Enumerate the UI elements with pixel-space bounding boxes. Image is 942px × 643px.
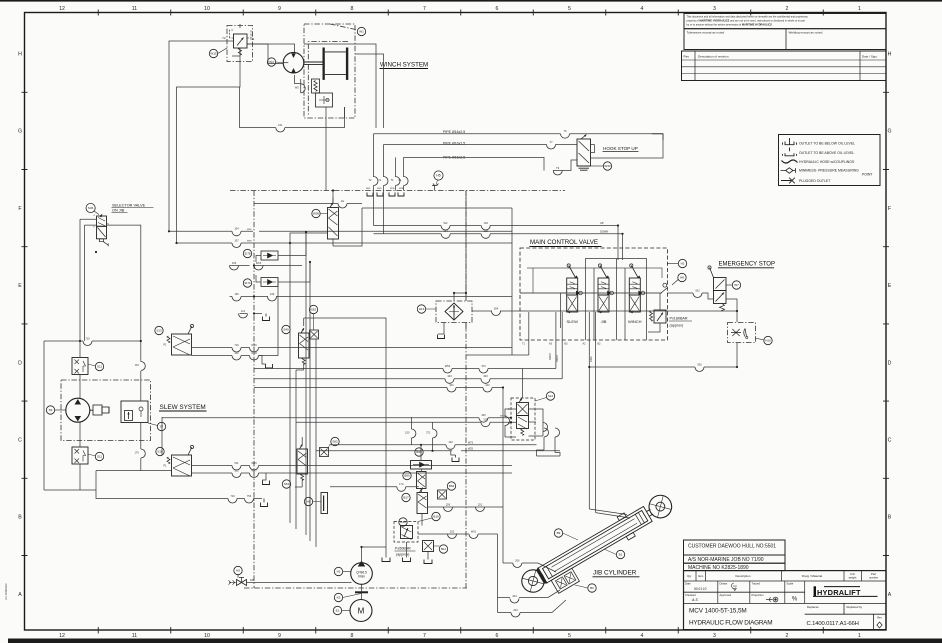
svg-text:17A: 17A: [399, 482, 404, 486]
B60 bubble: [403, 471, 411, 479]
winch brake spring valve: [312, 79, 320, 93]
hook stop wires: [591, 134, 664, 153]
svg-text:103: 103: [484, 221, 489, 225]
svg-text:350AT: 350AT: [556, 355, 559, 362]
MCV bubble H2: [678, 259, 686, 267]
svg-text:W1: W1: [359, 30, 364, 34]
svg-text:6: 6: [496, 633, 499, 639]
svg-text:B60: B60: [404, 474, 410, 478]
svg-text:E: E: [18, 283, 22, 289]
svg-text:W51: W51: [471, 529, 477, 533]
svg-text:ON JIB: ON JIB: [112, 209, 125, 213]
svg-text:Scale: Scale: [787, 582, 794, 586]
MCV feed verticals: [618, 226, 623, 261]
svg-text:Drwg / Material: Drwg / Material: [802, 574, 823, 578]
svg-text:%: %: [792, 597, 798, 603]
svg-text:W48: W48: [251, 351, 257, 355]
valve S40 bubble: [282, 325, 290, 333]
page bottom edge: [8, 639, 942, 643]
svg-text:Approved: Approved: [720, 593, 732, 597]
svg-text:1H: 1H: [341, 199, 344, 203]
svg-text:HYDRAULIC HOSE w/COUPLINGS: HYDRAULIC HOSE w/COUPLINGS: [799, 160, 855, 164]
jib cylinder group: [517, 490, 677, 598]
svg-text:by or to anyone without the wr: by or to anyone without the written perm…: [687, 23, 774, 27]
svg-text:101: 101: [278, 123, 283, 127]
S10 wires right: [192, 465, 513, 467]
svg-text:This document and all informat: This document and all information and da…: [687, 15, 809, 19]
right side vertical from hook area: [817, 190, 819, 192]
svg-text:G: G: [18, 129, 22, 135]
svg-text:W58: W58: [247, 241, 252, 243]
title block date drawn traced scale rows: [684, 592, 887, 603]
MCV inner connections: [527, 268, 662, 278]
H10 outlet wire: [589, 343, 737, 368]
winch to deck vertical main: [304, 44, 376, 128]
winch system label W1: [357, 27, 365, 35]
B17 out wire: [428, 506, 504, 508]
svg-text:S9: S9: [49, 408, 53, 412]
MCV outlet minimess: [661, 283, 667, 293]
deck boundary dash-dot right vertical: [465, 191, 467, 589]
svg-text:504: 504: [494, 306, 499, 310]
hook stop valve: [577, 139, 591, 166]
selector valve S36: [97, 216, 107, 226]
ruler row letters left: [18, 52, 22, 598]
jib cylinder valve block: [551, 568, 579, 593]
slew S7 bubble: [157, 422, 165, 430]
svg-text:W5: W5: [295, 85, 299, 89]
MCV bottom ports: [529, 312, 590, 379]
winch riser wires: [344, 107, 346, 118]
winch supply wires: [295, 75, 301, 93]
selector valve bubble S36: [86, 203, 95, 212]
svg-text:301: 301: [449, 383, 454, 387]
B17 bubble: [402, 493, 410, 501]
selector valve wires: [80, 219, 97, 341]
svg-text:W2: W2: [444, 221, 448, 225]
svg-text:Welding except as noted: Welding except as noted: [789, 30, 823, 34]
svg-text:110: 110: [234, 351, 239, 355]
svg-text:710: 710: [230, 494, 235, 498]
svg-text:W15: W15: [210, 52, 217, 56]
S40 wires: [296, 318, 304, 370]
svg-text:H13: H13: [419, 307, 425, 311]
B-series tanks: [386, 460, 428, 560]
H6 gauge body: [321, 493, 328, 514]
valve W36: [328, 208, 339, 240]
title block job box: [684, 555, 786, 563]
slew drain bottom: [96, 490, 262, 499]
svg-text:7: 7: [423, 633, 426, 639]
S12 bubble: [546, 392, 554, 400]
MCV gallery line: [520, 292, 662, 294]
svg-text:OUTLET TO BE BELOW OIL LEVEL: OUTLET TO BE BELOW OIL LEVEL: [799, 142, 855, 146]
H13 filter assembly: [436, 301, 472, 323]
svg-text:206: 206: [446, 502, 451, 506]
slew wires vertical right: [140, 341, 142, 471]
pump circle: [351, 563, 373, 585]
proprietary notice block: [684, 14, 886, 29]
svg-text:P±50BAR: P±50BAR: [395, 547, 411, 551]
svg-text:Part: Part: [871, 572, 876, 576]
svg-text:Item: Item: [698, 574, 704, 578]
svg-text:Pv180BAR: Pv180BAR: [670, 317, 688, 321]
B-series feed verticals: [421, 469, 424, 526]
svg-text:1: 1: [858, 633, 861, 639]
bundle junction verticals to B40: [411, 417, 432, 451]
deck boundary dash-dot bottom: [244, 587, 467, 589]
riser tank symbols: [367, 193, 373, 197]
valve S40: [299, 333, 310, 358]
svg-text:Y1: Y1: [378, 178, 382, 182]
svg-text:W39: W39: [390, 188, 395, 190]
svg-text:104: 104: [234, 227, 239, 231]
svg-text:200A: 200A: [590, 356, 593, 362]
B11 box: [423, 541, 434, 552]
winch drain line with hose: [240, 87, 345, 128]
tolerance and welding block: [684, 29, 886, 50]
svg-text:371: 371: [426, 431, 431, 435]
svg-text:3: 3: [713, 633, 716, 639]
svg-text:W41: W41: [366, 188, 371, 190]
svg-text:Replaced by: Replaced by: [847, 605, 863, 609]
jib cylinder bubbles: [554, 529, 562, 537]
winch motor W3: [283, 52, 304, 73]
title block main table: [684, 571, 887, 630]
svg-text:B2: B2: [590, 586, 594, 590]
B10 out wire: [418, 533, 498, 535]
svg-text:A.S: A.S: [691, 598, 698, 602]
MCV internal partitions: [561, 259, 647, 341]
svg-text:B11: B11: [441, 547, 446, 551]
svg-text:A/S NOR-MARINE JOB NO 71/: A/S NOR-MARINE JOB NO 71/90: [688, 557, 764, 563]
svg-text:G: G: [887, 129, 891, 135]
svg-text:Date: Date: [685, 582, 691, 586]
slew motor bubble S9: [46, 406, 54, 414]
slew return tank upper: [259, 356, 266, 365]
center bundle to right: [304, 208, 529, 460]
electric motor M: [350, 600, 372, 622]
S17 wires: [254, 265, 302, 267]
valve S61 bubble: [282, 480, 290, 488]
svg-text:SLEW: SLEW: [567, 319, 579, 324]
H10 bubble: [764, 336, 772, 344]
svg-text:B: B: [18, 515, 22, 521]
svg-text:D: D: [18, 360, 22, 366]
svg-text:202: 202: [450, 529, 455, 533]
emergency stop valve W7: [714, 278, 727, 291]
svg-text:H10: H10: [765, 339, 771, 343]
S12 feed wires: [523, 369, 556, 399]
svg-text:8: 8: [351, 633, 354, 639]
slew motor dash box: [61, 380, 151, 441]
main control valve dashed box: [520, 248, 667, 340]
check valve S17B: [261, 251, 278, 260]
svg-text:9: 9: [278, 633, 281, 639]
svg-text:756: 756: [247, 494, 252, 498]
svg-text:WINCH SYSTEM: WINCH SYSTEM: [380, 62, 428, 69]
svg-text:H5: H5: [436, 174, 440, 178]
svg-text:W25: W25: [468, 448, 474, 451]
check valve S17B bubble: [243, 249, 251, 257]
svg-text:W46: W46: [251, 343, 257, 347]
svg-text:H8: H8: [680, 276, 684, 280]
svg-text:5: 5: [568, 633, 571, 639]
coupling bubble K5: [334, 593, 342, 601]
svg-text:6: 6: [496, 6, 499, 12]
svg-text:M: M: [358, 607, 365, 616]
svg-text:10: 10: [204, 6, 210, 12]
legend box: [779, 135, 881, 186]
svg-text:716: 716: [234, 343, 239, 347]
svg-text:CUSTOMER DAEWOO HULL NO:5501: CUSTOMER DAEWOO HULL NO:5501: [688, 544, 776, 550]
cross wire A: [169, 230, 512, 232]
svg-text:W15: W15: [256, 261, 262, 265]
check valve S17A bubble: [243, 279, 251, 287]
hydralift logo: [813, 586, 878, 597]
svg-text:201: 201: [478, 502, 483, 506]
slew tank lower: [262, 473, 266, 480]
svg-text:S61: S61: [284, 482, 290, 486]
svg-text:H2: H2: [681, 262, 685, 266]
svg-text:511: 511: [234, 461, 239, 465]
svg-text:3: 3: [713, 6, 716, 12]
return line to MCV: [374, 233, 623, 235]
B11 bubble: [439, 545, 447, 553]
throttle check H10 box: [728, 323, 756, 343]
MCV section JIB: [598, 278, 609, 295]
svg-text:31B: 31B: [483, 418, 488, 422]
svg-text:115: 115: [135, 363, 140, 367]
revision table: [682, 51, 887, 81]
svg-text:E: E: [888, 283, 892, 289]
pressure line P to MCV: [374, 225, 619, 227]
S13 wires right: [192, 347, 513, 349]
svg-text:102: 102: [484, 229, 489, 233]
svg-text:SELECTOR VALVE: SELECTOR VALVE: [112, 204, 146, 208]
bundle wire level3: [254, 387, 503, 389]
svg-text:weight: weight: [849, 576, 857, 580]
svg-text:5: 5: [568, 6, 571, 12]
svg-text:W53: W53: [445, 364, 451, 368]
svg-text:136: 136: [234, 292, 239, 296]
S61 wires: [295, 437, 302, 487]
svg-text:C: C: [888, 438, 892, 444]
suction line: [247, 582, 352, 584]
svg-text:POINT: POINT: [862, 173, 873, 177]
valve W36 wires: [333, 198, 512, 247]
svg-text:K5: K5: [337, 596, 341, 600]
slew outer box: [44, 341, 141, 490]
slew gear symbol: [93, 405, 102, 415]
drawing number box: [873, 614, 875, 629]
legend outlet below oil level symbol: [783, 138, 797, 145]
slew prop valve S13: [155, 326, 163, 334]
ruler ticks top and bottom: [98, 10, 823, 634]
svg-text:12: 12: [59, 6, 65, 12]
S12 valve upper: [517, 403, 529, 416]
svg-text:B: B: [888, 515, 892, 521]
MCV section SLEW: [567, 278, 578, 295]
svg-text:Checked: Checked: [685, 593, 696, 597]
legend hydraulic hose symbol: [782, 160, 798, 163]
svg-text:MAIN CONTROL VALVE: MAIN CONTROL VALVE: [530, 239, 598, 246]
svg-text:370: 370: [481, 364, 486, 368]
svg-text:203: 203: [513, 608, 518, 612]
svg-text:Unit: Unit: [850, 572, 855, 576]
slew motor circle: [66, 398, 90, 422]
svg-text:Drawn: Drawn: [720, 582, 728, 586]
pump bubble H1: [334, 567, 342, 575]
bundle wire W53: [254, 368, 523, 370]
S11 lower bubble: [95, 452, 103, 460]
svg-text:2: 2: [786, 633, 789, 639]
svg-text:S11: S11: [97, 455, 102, 459]
svg-text:S40: S40: [283, 328, 289, 332]
jib mid bundle wires: [316, 445, 560, 451]
svg-text:150: 150: [405, 431, 410, 435]
svg-text:310: 310: [485, 383, 490, 387]
svg-text:Rev: Rev: [684, 54, 690, 58]
motor coupling: [361, 584, 363, 599]
svg-text:90.01.10: 90.01.10: [694, 587, 707, 591]
minimess H5: [434, 171, 443, 180]
emergency stop bubble W7: [732, 281, 740, 289]
svg-text:1: 1: [858, 6, 861, 12]
B40 box: [411, 461, 432, 470]
svg-text:C2: C2: [251, 37, 255, 41]
slew prop valve S10: [156, 447, 164, 455]
tank at 121: [240, 313, 263, 315]
relief valve W15 tail wires: [232, 24, 240, 62]
svg-text:204: 204: [512, 594, 517, 598]
MCV inter-section check valves: [579, 291, 583, 295]
S11 upper bubble: [95, 362, 103, 370]
riser hoses at deck: [374, 134, 404, 177]
svg-text:S62: S62: [311, 308, 317, 312]
svg-text:176: 176: [134, 451, 139, 455]
S12 valve lower: [517, 416, 529, 429]
legend minimess symbol: [781, 168, 796, 173]
pump outlet wire: [362, 547, 387, 563]
pipe line 3: [404, 157, 567, 170]
jib feed line from emergency stop drain: [589, 312, 595, 513]
line H13 right with hose: [472, 310, 737, 312]
svg-text:(approx): (approx): [396, 553, 409, 557]
B62 bubble: [447, 482, 455, 490]
bundle wire level4 (417): [162, 417, 511, 419]
svg-text:Y2: Y2: [222, 36, 226, 40]
svg-text:H: H: [888, 52, 892, 58]
svg-text:S17B: S17B: [244, 253, 250, 256]
svg-text:MINIMESS- PRESSURE MEASURING: MINIMESS- PRESSURE MEASURING: [799, 169, 859, 173]
svg-text:C.1400.0117.A1-66H: C.1400.0117.A1-66H: [807, 621, 859, 627]
B18 bubble: [399, 518, 407, 526]
svg-text:4: 4: [641, 633, 644, 639]
hook stop bubble W33: [603, 162, 611, 170]
ruler column numbers top: [59, 6, 861, 12]
svg-text:l/min: l/min: [358, 575, 365, 579]
svg-text:320: 320: [481, 413, 486, 417]
jib hoses: [503, 560, 556, 572]
svg-text:HYDRALIFT: HYDRALIFT: [817, 588, 861, 597]
svg-text:107: 107: [234, 238, 239, 242]
svg-text:B10: B10: [433, 515, 439, 519]
wire from deck to W36 top: [332, 191, 334, 204]
svg-text:Qty: Qty: [687, 574, 692, 578]
relief valve W15 label bubble: [209, 49, 217, 57]
svg-text:W36: W36: [313, 212, 320, 216]
winch shuttle valve block: [316, 93, 333, 107]
B60 left wire: [330, 486, 419, 488]
deck boundary dash-dot top horizontal: [230, 190, 565, 192]
ruler ticks left and right: [22, 92, 890, 555]
svg-text:UP: UP: [600, 221, 604, 225]
B62 box: [438, 490, 447, 499]
emergency stop wires: [667, 293, 713, 299]
svg-text:206: 206: [515, 558, 520, 562]
valve S61: [297, 449, 308, 474]
svg-text:F: F: [888, 206, 891, 212]
svg-text:Rev: Rev: [877, 616, 882, 620]
svg-text:121: 121: [241, 309, 246, 313]
svg-text:W40: W40: [377, 188, 382, 190]
svg-text:H6: H6: [307, 500, 311, 504]
svg-text:number: number: [869, 576, 878, 580]
svg-text:Description of revision: Description of revision: [698, 54, 729, 58]
svg-text:120: 120: [448, 440, 453, 444]
svg-text:W38: W38: [399, 188, 404, 190]
svg-text:106: 106: [250, 579, 255, 582]
bundle wire level2: [254, 378, 562, 380]
svg-text:7: 7: [423, 6, 426, 12]
page top edge: [0, 0, 942, 2]
S62 solenoid box lower: [331, 437, 339, 445]
winch system boundary dash-dot box: [304, 24, 355, 118]
bundle wire level 1: [230, 296, 513, 298]
svg-text:Projection: Projection: [752, 593, 764, 597]
winch drum: [304, 48, 348, 80]
svg-text:H1: H1: [337, 570, 341, 574]
svg-text:350AT: 350AT: [549, 353, 552, 360]
svg-text:DOWN: DOWN: [600, 229, 608, 233]
title block machine box: [684, 563, 786, 570]
B60 valve: [417, 472, 427, 489]
svg-text:WINCH: WINCH: [628, 319, 642, 324]
svg-text:W33: W33: [604, 164, 611, 168]
replaces row: [805, 603, 886, 614]
pipe line 1: [374, 134, 664, 140]
long verticals center bundle: [290, 232, 316, 547]
pipe line 2: [384, 144, 578, 146]
wire W15 to left drop: [169, 41, 234, 231]
svg-text:PLUGGED OUTLET: PLUGGED OUTLET: [799, 179, 831, 183]
svg-text:OUTLET TO BE ABOVE OIL LEVEL: OUTLET TO BE ABOVE OIL LEVEL: [799, 151, 854, 155]
winch motor label bubble W3: [267, 58, 275, 66]
svg-text:Date / Sign.: Date / Sign.: [862, 54, 878, 58]
svg-text:502: 502: [234, 468, 239, 472]
svg-text:S62: S62: [332, 440, 338, 444]
svg-text:D: D: [888, 360, 892, 366]
svg-text:502: 502: [695, 288, 700, 292]
svg-text:105: 105: [232, 261, 237, 265]
ruler column numbers bottom: [59, 633, 861, 639]
svg-text:139: 139: [270, 292, 275, 296]
B10 bubble: [432, 512, 440, 520]
H13 wires: [438, 293, 466, 334]
svg-text:EMERGENCY STOP: EMERGENCY STOP: [719, 262, 775, 268]
svg-text:W62: W62: [247, 229, 252, 231]
